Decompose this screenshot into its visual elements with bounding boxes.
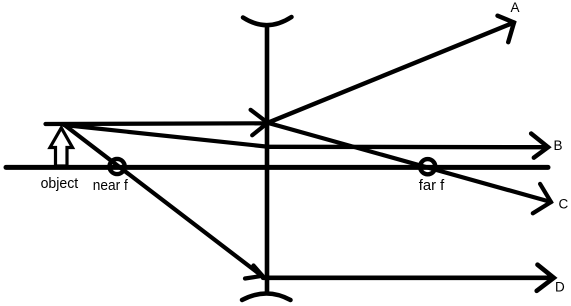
arrowhead D: [537, 265, 554, 291]
lens bottom concave cap: [242, 294, 291, 301]
lens top concave cap: [243, 17, 292, 25]
svg-text:far f: far f: [419, 178, 445, 194]
svg-text:B: B: [554, 138, 563, 153]
optical axis: [6, 165, 548, 170]
ray A: refracted upward ray: [268, 23, 514, 123]
incident ray aimed at far focal point: [64, 125, 267, 147]
arrowhead B: [531, 134, 548, 158]
svg-text:C: C: [559, 196, 569, 211]
svg-text:D: D: [555, 280, 565, 295]
ray C: from lens through far focal point: [268, 123, 551, 202]
ray D: emerges parallel along bottom: [263, 275, 553, 280]
svg-text:A: A: [511, 0, 520, 15]
svg-text:near f: near f: [93, 178, 129, 194]
arrowhead C: [533, 184, 551, 213]
arrowhead at lens on parallel ray: [251, 110, 268, 136]
arrowhead A: [498, 16, 515, 43]
incident ray through near focal point down to lens bottom: [65, 125, 263, 276]
incident ray: parallel to axis from object tip to lens: [46, 121, 267, 126]
lens (diverging) vertical line: [265, 23, 270, 294]
far focal point circle: [420, 159, 435, 174]
object block arrow (hollow): [50, 128, 73, 166]
arrowhead at lens bottom: [245, 266, 263, 279]
near focal point circle: [110, 159, 125, 174]
svg-text:object: object: [41, 176, 79, 192]
ray B: emerges parallel to axis: [267, 145, 548, 150]
